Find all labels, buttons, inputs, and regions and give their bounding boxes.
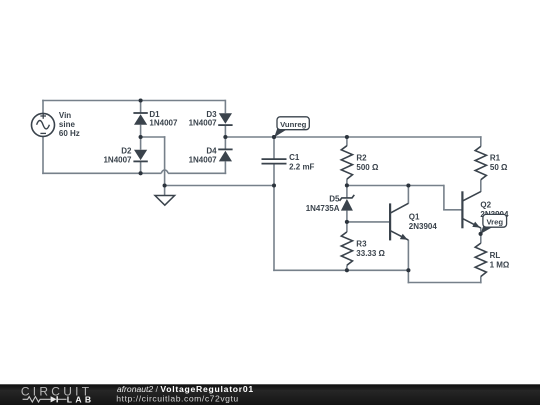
svg-text:afronaut2 / VoltageRegulator01: afronaut2 / VoltageRegulator01 [117,384,254,394]
logo circuit doodle [23,397,51,402]
wire output rail [225,136,481,138]
wire D5 top lead [346,185,348,198]
wire D5 anode lead [346,211,348,222]
diode D2 [133,160,147,162]
svg-text:1N4007: 1N4007 [103,156,132,165]
junction node 11 [345,220,349,224]
svg-text:Vunreg: Vunreg [280,120,307,129]
svg-text:Vreg: Vreg [486,218,503,227]
svg-text:R3: R3 [356,240,367,249]
wire C1 top lead [273,136,275,159]
wire D3 top lead [224,100,226,114]
svg-text:1N4007: 1N4007 [149,119,178,128]
wire source bottom lead [42,136,44,174]
wire D3 cathode lead [224,125,226,137]
svg-text:50 Ω: 50 Ω [490,163,508,172]
wire Q1 base horizontal [347,221,390,223]
svg-text:C1: C1 [289,153,300,162]
wire Q2 base corner vertical [443,185,445,210]
wire bottom right horizontal [408,282,482,284]
svg-text:1N4007: 1N4007 [189,119,218,128]
wire node mid-left to ground stub [141,136,166,138]
svg-text:Q1: Q1 [409,212,420,221]
svg-text:R1: R1 [490,153,501,162]
wire Q1 collector vertical [407,186,409,204]
junction node 3 [223,135,227,139]
svg-text:R2: R2 [356,153,367,162]
wire R3 top lead [346,222,348,232]
junction node 6 [345,135,349,139]
svg-text:D4: D4 [206,147,217,156]
svg-text:D2: D2 [121,147,132,156]
wire R1 bottom lead to Q2 collector [480,180,482,192]
wire Q1 emitter vertical [407,240,409,283]
wire R2 top lead [346,137,348,146]
wire D2 cathode lead [140,161,142,173]
wire D1 anode lead [140,125,142,137]
svg-text:http://circuitlab.com/c72vgtu: http://circuitlab.com/c72vgtu [116,393,238,403]
svg-text:2N3904: 2N3904 [409,222,438,231]
wire hop over ground wire [162,170,168,173]
wire R2 bottom lead [346,179,348,185]
resistor RL [475,243,486,276]
svg-text:1N4007: 1N4007 [189,156,218,165]
wire R1 top lead [480,136,482,146]
wire bottom rail right of hop [168,172,226,174]
junction node 4 [139,171,143,175]
svg-text:sine: sine [59,120,76,129]
wire top rail [42,100,225,102]
svg-text:2.2 mF: 2.2 mF [289,163,314,172]
zener diode D5 [340,195,355,201]
wire RL bottom lead [480,276,482,283]
wire source top lead [42,100,44,114]
wire C1 bottom lead [273,164,275,186]
footer bar [0,384,540,405]
svg-text:500 Ω: 500 Ω [356,163,379,172]
resistor R1 [475,146,486,179]
junction node 7 [163,183,167,187]
wire node A horizontal to Q2 corner [347,185,444,187]
junction node 12 [345,268,349,272]
svg-text:33.33 Ω: 33.33 Ω [356,249,385,258]
svg-text:1 MΩ: 1 MΩ [490,260,510,269]
svg-text:LAB: LAB [67,395,95,405]
resistor R3 [341,232,352,265]
junction node 5 [272,135,276,139]
wire D2 anode lead [140,137,142,150]
wire D1 top lead [140,101,142,114]
wire ground stub vertical [164,136,166,185]
capacitor C1 [262,158,287,160]
wire bottom ground rail [273,269,408,271]
transistor Q2 [461,191,463,228]
svg-text:RL: RL [490,251,501,260]
svg-text:D5: D5 [329,195,340,204]
ground symbol [164,186,166,196]
svg-text:Q2: Q2 [480,200,491,209]
wire ground mid horizontal [165,185,274,187]
diode D1 [133,112,147,114]
wire C1 down to ground rail [273,186,275,272]
wire D4 cathode lead [224,137,226,149]
transistor Q1 [389,203,391,240]
resistor R2 [341,146,352,179]
svg-text:1N4735A: 1N4735A [306,204,340,213]
junction node 9 [345,183,349,187]
junction node 13 [406,268,410,272]
node label Vreg [481,225,493,234]
wire bottom rail left of hop [42,172,161,174]
voltage source Vin [32,113,55,136]
diode D3 [218,124,232,126]
wire R3 bottom lead [346,265,348,270]
junction node 10 [406,183,410,187]
junction node 1 [139,98,143,102]
wire D4 anode lead [224,161,226,174]
svg-text:60 Hz: 60 Hz [59,129,80,138]
svg-text:Vin: Vin [59,111,71,120]
junction node 8 [272,183,276,187]
wire Q2 emitter to RL [480,228,482,244]
junction node 2 [139,135,143,139]
diode D4 [218,148,232,150]
node label Vunreg [274,128,286,138]
wire Q2 base horizontal [443,209,462,211]
